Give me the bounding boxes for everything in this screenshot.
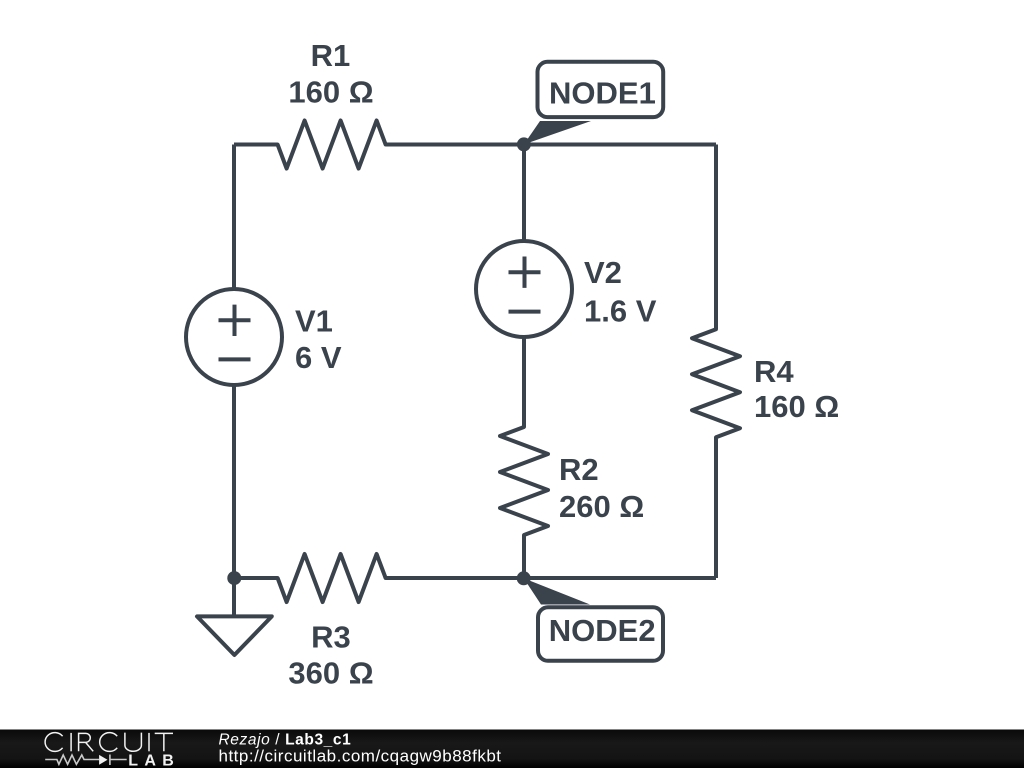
svg-text:http://circuitlab.com/cqagw9b8: http://circuitlab.com/cqagw9b88fkbt [219, 747, 502, 766]
svg-text:R4: R4 [754, 354, 794, 389]
svg-text:V2: V2 [584, 255, 622, 290]
svg-text:260 Ω: 260 Ω [559, 489, 644, 524]
svg-text:6 V: 6 V [295, 340, 342, 375]
svg-text:R3: R3 [311, 620, 351, 655]
svg-text:V1: V1 [295, 304, 333, 339]
svg-text:1.6 V: 1.6 V [584, 294, 657, 329]
svg-text:LAB: LAB [128, 752, 180, 768]
svg-text:360 Ω: 360 Ω [288, 655, 373, 690]
svg-text:R2: R2 [559, 452, 599, 487]
svg-text:160 Ω: 160 Ω [754, 389, 839, 424]
svg-text:R1: R1 [311, 38, 351, 73]
svg-text:NODE1: NODE1 [549, 75, 656, 110]
svg-text:160 Ω: 160 Ω [288, 75, 373, 110]
svg-text:NODE2: NODE2 [549, 613, 656, 648]
